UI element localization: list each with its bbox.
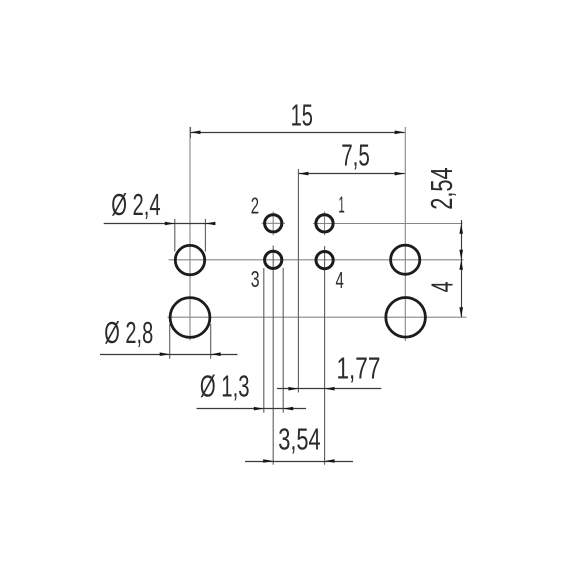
- extension line pin4 center vertical down to dim 3,54: [324, 246, 326, 465]
- extension line dim Ø1,3 left tangent: [263, 268, 265, 413]
- svg-text:Ø 1,3: Ø 1,3: [200, 370, 250, 404]
- svg-text:Ø 2,4: Ø 2,4: [111, 188, 161, 222]
- svg-text:4: 4: [336, 267, 344, 293]
- extension line center axis vertical for dims 7,5 and 1,77: [297, 169, 299, 393]
- dimension 7,5 line with outward arrows: [298, 172, 404, 176]
- extension line dim 15 left end vertical: [190, 127, 192, 138]
- dimension 1,77 line with inward arrows: [277, 387, 381, 391]
- extension line dim Ø2,4 right tangent: [204, 219, 206, 252]
- svg-text:3,54: 3,54: [278, 423, 321, 457]
- extension line dim Ø2,8 right tangent: [210, 324, 212, 359]
- dimension 2,54 and 4 vertical line with outward arrows: [459, 220, 463, 317]
- hole H1 Ø2.4 top-left circle: [175, 245, 204, 274]
- centerline left column vertical: [189, 127, 191, 341]
- svg-text:1: 1: [338, 192, 344, 218]
- svg-text:15: 15: [291, 99, 313, 133]
- hole H3 Ø2.8 bottom-left circle: [170, 298, 210, 338]
- centerline pin1 row1 horizontal extension to dim 2,54: [313, 223, 463, 225]
- dimension 15 line with outward arrows: [191, 131, 405, 135]
- dimension Ø1,3 leader line with inward arrows: [197, 407, 306, 411]
- centerline pin1 crosshair vertical: [324, 212, 326, 236]
- svg-text:3: 3: [251, 266, 260, 292]
- svg-text:Ø 2,8: Ø 2,8: [104, 316, 153, 350]
- svg-text:4: 4: [426, 281, 460, 292]
- dimension Ø2,4 leader line with inward arrows: [104, 222, 216, 226]
- svg-text:7,5: 7,5: [341, 138, 370, 172]
- extension line dim Ø1,3 right tangent: [282, 268, 284, 413]
- extension line dim Ø2,8 left tangent: [169, 324, 171, 359]
- pin contact 2 circle: [265, 215, 282, 232]
- pin contact 4 circle: [316, 252, 333, 269]
- centerline row3 horizontal through big holes: [168, 316, 467, 318]
- svg-text:1,77: 1,77: [337, 351, 381, 385]
- extension line dim Ø2,4 left tangent: [174, 219, 176, 252]
- extension line pin3 center vertical down to dim 3,54: [272, 246, 274, 465]
- centerline row2 horizontal through holes/pins 3-4: [169, 259, 464, 261]
- centerline right column vertical: [404, 127, 406, 341]
- hole H4 Ø2.8 bottom-right circle: [386, 298, 426, 338]
- svg-text:2: 2: [251, 193, 259, 219]
- dimension 3,54 line with inward arrows: [245, 459, 353, 463]
- pin contact 3 circle: [265, 251, 282, 268]
- svg-text:2,54: 2,54: [425, 167, 459, 209]
- hole H2 Ø2.4 top-right circle: [391, 245, 420, 274]
- dimension Ø2,8 leader line with inward arrows: [100, 352, 238, 356]
- pin contact 1 circle: [316, 215, 333, 232]
- centerline pin2 crosshair vertical: [272, 212, 274, 236]
- centerline pin2 crosshair horizontal: [262, 222, 286, 224]
